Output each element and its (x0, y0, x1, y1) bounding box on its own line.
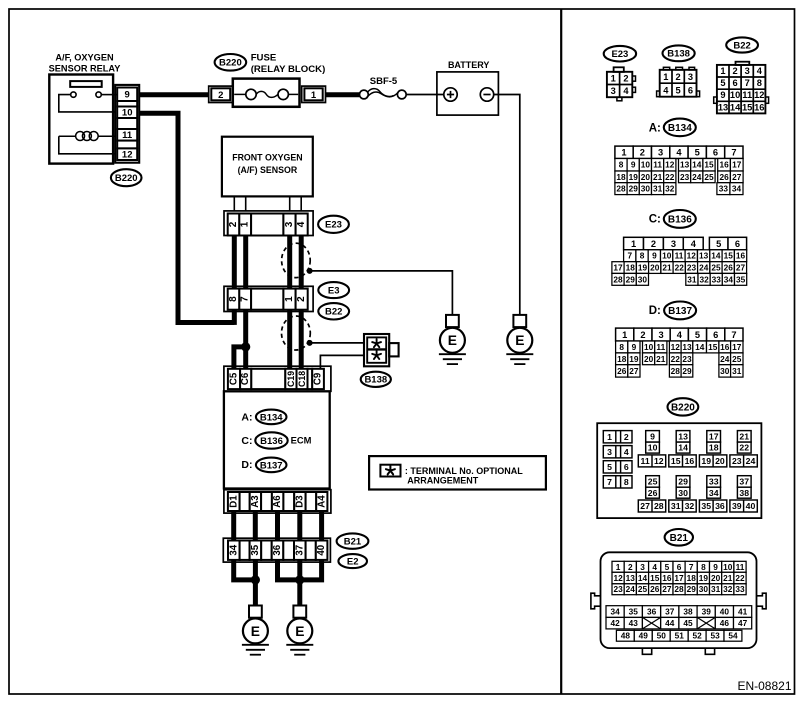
oval E23 (318, 216, 349, 233)
svg-text:19: 19 (629, 354, 639, 364)
E3 pin 2 (296, 289, 308, 310)
svg-text:B21: B21 (344, 537, 362, 548)
B21 bottom row (616, 630, 634, 641)
svg-text:32: 32 (699, 274, 709, 284)
ECM pin A6 (272, 492, 284, 511)
wire D3 to 37 (297, 511, 302, 541)
svg-text:2: 2 (676, 72, 681, 82)
svg-text:36: 36 (715, 501, 725, 511)
svg-text:7: 7 (689, 562, 694, 572)
svg-text:40: 40 (720, 607, 730, 617)
svg-text:6: 6 (733, 78, 738, 88)
wire 34 elbow (234, 560, 256, 580)
svg-text:8: 8 (640, 251, 645, 261)
wire battery minus to ground (494, 95, 520, 315)
svg-text:23: 23 (732, 456, 742, 466)
svg-text:6: 6 (688, 86, 693, 96)
shield junction upper (307, 268, 313, 274)
svg-text:28: 28 (654, 501, 664, 511)
wire E3-2 to ECM C18 (299, 310, 304, 369)
wire connector pin 8 drop (232, 310, 237, 325)
svg-text:1: 1 (284, 296, 295, 302)
svg-text:13: 13 (678, 432, 688, 442)
svg-text:13: 13 (626, 573, 636, 583)
svg-text:44: 44 (665, 618, 675, 628)
svg-text:11: 11 (641, 456, 650, 466)
svg-text:4: 4 (623, 86, 629, 96)
ground shield E (446, 315, 459, 327)
svg-text:14: 14 (638, 573, 648, 583)
svg-text:1: 1 (663, 72, 668, 82)
svg-text:9: 9 (720, 90, 725, 100)
svg-text:33: 33 (709, 477, 719, 487)
svg-text:4: 4 (757, 66, 763, 76)
svg-text:B138: B138 (667, 49, 690, 60)
oval B22 panel (726, 37, 758, 52)
svg-text:E2: E2 (347, 557, 359, 568)
svg-text:24: 24 (692, 172, 702, 182)
E23 pin 4 (296, 214, 308, 236)
svg-text:3: 3 (611, 86, 616, 96)
svg-text:12: 12 (654, 456, 664, 466)
svg-text:18: 18 (709, 443, 719, 453)
svg-text:27: 27 (662, 584, 672, 594)
svg-text:30: 30 (641, 184, 651, 194)
svg-text:2: 2 (640, 330, 645, 340)
connector strip E23 (224, 211, 313, 236)
svg-text:1: 1 (621, 148, 626, 158)
battery plus terminal (444, 88, 457, 101)
svg-text:B137: B137 (260, 460, 283, 471)
svg-text:28: 28 (671, 366, 681, 376)
svg-text:FUSE: FUSE (251, 52, 277, 63)
ECM pin C18 (297, 369, 308, 389)
svg-text:20: 20 (650, 263, 660, 273)
ECM pin D3 (294, 492, 305, 511)
svg-text:FRONT OXYGEN: FRONT OXYGEN (232, 152, 302, 162)
svg-text:1: 1 (631, 239, 636, 249)
svg-text:46: 46 (720, 618, 730, 628)
relay contact circles (71, 92, 76, 97)
svg-text:20: 20 (644, 354, 654, 364)
svg-text:23: 23 (682, 354, 692, 364)
oval E2 (338, 554, 367, 568)
svg-text:29: 29 (629, 184, 639, 194)
svg-text:13: 13 (682, 342, 692, 352)
svg-text:6: 6 (735, 239, 740, 249)
svg-text:9: 9 (632, 342, 637, 352)
svg-text:17: 17 (674, 573, 684, 583)
svg-text:B134: B134 (260, 412, 283, 423)
svg-text:26: 26 (648, 488, 658, 498)
svg-text:B136: B136 (260, 436, 283, 447)
svg-text:B22: B22 (325, 307, 342, 318)
svg-text:C6: C6 (240, 372, 251, 385)
svg-text:2: 2 (296, 296, 307, 302)
svg-text:1: 1 (622, 330, 627, 340)
svg-text:A6: A6 (272, 495, 283, 508)
svg-text:ECM: ECM (291, 435, 312, 446)
svg-text:5: 5 (695, 330, 700, 340)
svg-text:27: 27 (736, 263, 746, 273)
svg-text:16: 16 (720, 342, 730, 352)
svg-text:E: E (448, 333, 457, 348)
svg-text:32: 32 (723, 584, 733, 594)
svg-text:29: 29 (626, 274, 636, 284)
wire shield to B138 star (310, 342, 364, 344)
svg-text:2: 2 (651, 239, 656, 249)
relay coil return wire to pin 12 (59, 136, 115, 154)
svg-text:29: 29 (678, 477, 688, 487)
svg-text:19: 19 (629, 172, 639, 182)
svg-text:4: 4 (691, 239, 697, 249)
relay contact wiring to pin 10 (59, 95, 115, 112)
svg-text:3: 3 (745, 66, 750, 76)
svg-text:1: 1 (616, 562, 621, 572)
svg-text:39: 39 (732, 501, 742, 511)
wire relay pin 10 to connector pin 8 (139, 113, 234, 322)
svg-text:50: 50 (657, 631, 667, 641)
svg-text:9: 9 (631, 160, 636, 170)
svg-text:A:: A: (649, 122, 661, 134)
oval B138 panel (663, 45, 695, 61)
svg-text:31: 31 (671, 501, 681, 511)
svg-text:4: 4 (624, 447, 629, 457)
svg-text:19: 19 (701, 456, 711, 466)
ECM pin A3 (250, 492, 261, 511)
svg-text:7: 7 (745, 78, 750, 88)
svg-text:32: 32 (665, 184, 675, 194)
svg-text:22: 22 (675, 263, 685, 273)
svg-text:1: 1 (611, 74, 616, 84)
svg-text:42: 42 (610, 618, 620, 628)
svg-text:21: 21 (723, 573, 733, 583)
svg-text:5: 5 (695, 148, 700, 158)
svg-text:21: 21 (739, 432, 749, 442)
connector B138 optional terminals (364, 334, 389, 366)
svg-text:19: 19 (638, 263, 648, 273)
ECM pin C9 (312, 369, 324, 389)
shield oval upper (282, 243, 311, 277)
svg-text:24: 24 (626, 584, 636, 594)
sensor lead 1 (245, 196, 247, 211)
svg-text:16: 16 (736, 251, 746, 261)
svg-text:14: 14 (695, 342, 705, 352)
svg-text:9: 9 (713, 562, 718, 572)
svg-text:B136: B136 (668, 215, 692, 226)
svg-text:C19: C19 (286, 371, 296, 387)
svg-text:11: 11 (122, 130, 133, 141)
svg-text:D:: D: (649, 305, 661, 317)
svg-text:5: 5 (665, 562, 670, 572)
wire E23-4 to E3-2 (299, 236, 304, 289)
relay coil (59, 135, 76, 137)
svg-text:24: 24 (746, 456, 756, 466)
svg-text:D:: D: (241, 459, 252, 471)
ECM top strip (224, 366, 331, 391)
svg-text:34: 34 (228, 544, 239, 555)
svg-text:28: 28 (674, 584, 684, 594)
svg-text:8: 8 (228, 296, 239, 302)
svg-text:30: 30 (720, 366, 730, 376)
svg-text:5: 5 (676, 86, 681, 96)
connector strip E3 B22 (224, 286, 313, 311)
svg-text:20: 20 (711, 573, 721, 583)
svg-text:43: 43 (629, 618, 639, 628)
svg-text:24: 24 (699, 263, 709, 273)
blank e1 (240, 541, 250, 560)
blank e3 (283, 541, 294, 560)
svg-text:20: 20 (715, 456, 725, 466)
svg-text:10: 10 (730, 90, 740, 100)
wire 36 elbow (278, 560, 300, 580)
svg-text:E: E (251, 624, 260, 639)
panel divider line (560, 9, 562, 694)
svg-text:18: 18 (626, 263, 636, 273)
svg-text:25: 25 (638, 584, 648, 594)
ground right E (293, 606, 306, 618)
svg-text:3: 3 (688, 72, 693, 82)
relay pin blank b (117, 118, 137, 129)
svg-text:53: 53 (710, 631, 720, 641)
svg-text:38: 38 (739, 488, 749, 498)
wire SBF-5 to battery plus (406, 94, 444, 96)
svg-text:2: 2 (228, 221, 239, 227)
svg-text:21: 21 (662, 263, 672, 273)
svg-text:11: 11 (656, 342, 665, 352)
svg-text:37: 37 (294, 545, 305, 556)
svg-text:51: 51 (675, 631, 685, 641)
svg-text:24: 24 (720, 354, 730, 364)
svg-text:49: 49 (639, 631, 649, 641)
ECM box (224, 391, 330, 488)
svg-text:13: 13 (718, 102, 728, 112)
svg-text:11: 11 (742, 90, 752, 100)
svg-text:C:: C: (241, 435, 252, 447)
svg-text:EN-08821: EN-08821 (737, 679, 791, 693)
svg-text:B134: B134 (668, 123, 692, 134)
svg-text:34: 34 (732, 184, 742, 194)
svg-text:14: 14 (730, 102, 741, 112)
wire 37 down (297, 560, 302, 606)
E23 blank cell (251, 214, 283, 236)
fuse pin 2 (209, 86, 233, 102)
svg-text:E3: E3 (328, 286, 340, 297)
svg-text:1: 1 (311, 90, 317, 101)
svg-text:10: 10 (662, 251, 672, 261)
svg-text:B21: B21 (670, 533, 689, 544)
wire E23-2 to E3-8 (232, 236, 237, 289)
ECM bottom strip (224, 490, 331, 513)
svg-text:B22: B22 (733, 40, 750, 51)
shield oval lower (282, 316, 311, 350)
svg-text:28: 28 (613, 274, 623, 284)
svg-text:40: 40 (316, 545, 327, 556)
svg-text:9: 9 (652, 251, 657, 261)
svg-text:16: 16 (754, 102, 764, 112)
oval B138 left (361, 372, 391, 387)
svg-text:27: 27 (732, 172, 742, 182)
sensor lead 3 (289, 196, 291, 211)
svg-text:48: 48 (621, 631, 631, 641)
E3 pin 1 (283, 289, 295, 310)
oval B220 panel (668, 398, 699, 415)
svg-text:14: 14 (678, 443, 688, 453)
B21 middle block (606, 606, 624, 618)
svg-text:54: 54 (728, 631, 738, 641)
blank d1 (240, 492, 250, 511)
ECM pin C19 (285, 369, 296, 389)
pin 35 (250, 541, 262, 560)
svg-text:D3: D3 (294, 495, 305, 508)
connector view B22 (736, 62, 750, 65)
svg-text:BATTERY: BATTERY (448, 60, 490, 70)
svg-text:7: 7 (731, 148, 736, 158)
svg-text:18: 18 (616, 172, 626, 182)
svg-text:30: 30 (638, 274, 648, 284)
wire ECM C9 to B138 star (320, 355, 364, 368)
svg-text:47: 47 (738, 618, 748, 628)
pin 40 (316, 541, 328, 560)
svg-text:22: 22 (735, 573, 745, 583)
pin 34 (228, 541, 240, 560)
relay pin blank c (117, 141, 137, 149)
ECM pin C5 (228, 369, 240, 389)
wire E3-1 to ECM C19 (287, 310, 292, 369)
svg-text:25: 25 (648, 477, 658, 487)
relay pin 9 (117, 88, 137, 102)
wire A6 to 36 (275, 511, 280, 541)
svg-text:40: 40 (746, 501, 756, 511)
oval B22 (318, 303, 349, 319)
svg-text:12: 12 (122, 150, 133, 161)
svg-text:B220: B220 (115, 173, 138, 184)
svg-text:29: 29 (682, 366, 692, 376)
svg-text:E: E (515, 333, 524, 348)
svg-text:21: 21 (656, 354, 666, 364)
svg-text:B138: B138 (364, 375, 387, 386)
svg-text:13: 13 (680, 160, 690, 170)
svg-text:4: 4 (677, 330, 683, 340)
svg-text:2: 2 (640, 148, 645, 158)
svg-text:23: 23 (613, 584, 623, 594)
svg-text:1: 1 (240, 221, 251, 227)
relay block view B220 box (597, 423, 761, 518)
svg-text:3: 3 (607, 447, 612, 457)
fuse connector oval B220 (215, 54, 247, 71)
svg-text:12: 12 (687, 251, 697, 261)
svg-text:9: 9 (125, 90, 130, 101)
svg-text:26: 26 (719, 172, 729, 182)
svg-text:4: 4 (652, 562, 657, 572)
relay pin 11 (117, 129, 137, 141)
svg-text:20: 20 (641, 172, 651, 182)
B21 bottom tab right (705, 648, 714, 654)
svg-text:33: 33 (719, 184, 729, 194)
oval E23 panel (604, 46, 636, 62)
svg-text:3: 3 (671, 239, 676, 249)
svg-text:SENSOR RELAY: SENSOR RELAY (49, 63, 121, 73)
pin 37 (294, 541, 306, 560)
legend box terminal optional (369, 456, 546, 489)
svg-text:B220: B220 (671, 403, 695, 414)
svg-text:D1: D1 (228, 495, 239, 508)
svg-text:22: 22 (671, 354, 681, 364)
ECM pin C6 (240, 369, 251, 389)
svg-text:37: 37 (739, 477, 749, 487)
svg-text:36: 36 (647, 607, 657, 617)
oval E3 (318, 282, 349, 298)
oval B21 panel (665, 529, 693, 546)
svg-text:E23: E23 (611, 49, 628, 60)
svg-text:18: 18 (617, 354, 627, 364)
svg-text:9: 9 (650, 432, 655, 442)
svg-text:8: 8 (757, 78, 762, 88)
svg-text:C9: C9 (313, 372, 324, 385)
svg-text:8: 8 (701, 562, 706, 572)
svg-text:A:: A: (241, 411, 252, 423)
pin 36 (272, 541, 284, 560)
svg-text:6: 6 (713, 330, 718, 340)
svg-text:34: 34 (724, 274, 734, 284)
E23 pin 1 (239, 214, 251, 236)
svg-text:35: 35 (250, 544, 261, 555)
wire 35 down (253, 560, 258, 606)
svg-text:2: 2 (623, 74, 628, 84)
svg-text:3: 3 (284, 221, 295, 227)
fuse pin 1 (302, 86, 326, 102)
connector view B134 (615, 146, 633, 158)
ground battery E (513, 315, 526, 327)
svg-text:ARRANGEMENT: ARRANGEMENT (407, 476, 479, 486)
svg-text:12: 12 (671, 342, 681, 352)
ECM top blank (251, 369, 285, 389)
blank d2 (261, 492, 272, 511)
svg-text:3: 3 (658, 148, 663, 158)
connector strip B21 E2 (223, 538, 330, 562)
svg-text:21: 21 (653, 172, 663, 182)
battery box (437, 72, 499, 115)
svg-text:4: 4 (676, 148, 682, 158)
svg-text:5: 5 (607, 462, 612, 472)
svg-text:A/F, OXYGEN: A/F, OXYGEN (55, 52, 114, 62)
svg-text:27: 27 (629, 366, 639, 376)
svg-text:25: 25 (732, 354, 742, 364)
connector view E23 (614, 67, 624, 72)
svg-text:26: 26 (617, 366, 627, 376)
svg-text:11: 11 (675, 251, 684, 261)
relay armature bar (70, 81, 102, 87)
wire D1 to 34 (231, 511, 236, 541)
svg-text:5: 5 (716, 239, 721, 249)
svg-text:31: 31 (732, 366, 742, 376)
relay pin block B220 (115, 85, 139, 163)
svg-text:B137: B137 (668, 306, 692, 317)
svg-text:2: 2 (218, 90, 223, 101)
svg-text:15: 15 (708, 342, 718, 352)
wire branch to ECM C5 (234, 347, 246, 369)
relay connector oval B220 (111, 169, 142, 186)
svg-text:SBF-5: SBF-5 (370, 76, 398, 87)
relay B220 box (49, 75, 113, 164)
svg-text:12: 12 (613, 573, 623, 583)
svg-text:7: 7 (731, 330, 736, 340)
B21 right latch (757, 593, 767, 609)
svg-text:14: 14 (711, 251, 721, 261)
svg-text:12: 12 (754, 90, 764, 100)
ECM top blank small (308, 369, 313, 389)
svg-text:35: 35 (736, 274, 746, 284)
